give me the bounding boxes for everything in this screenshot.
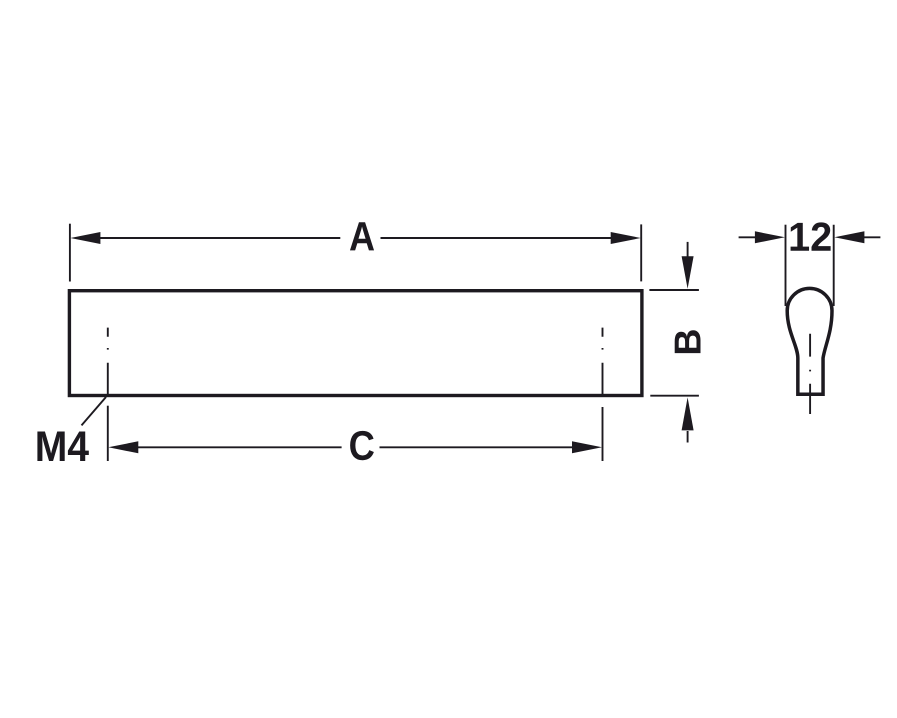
- dimension 12 extension line left: [785, 225, 787, 306]
- dimension C label: [350, 431, 374, 460]
- dimension B label: [675, 330, 701, 353]
- dimension 12 label: [791, 222, 831, 250]
- dimension A extension line right: [640, 224, 642, 281]
- thread label M4: [37, 431, 88, 461]
- dimension 12 extension line right: [833, 225, 835, 306]
- hole centerline right: [602, 328, 604, 397]
- dimension A extension line left: [69, 224, 71, 282]
- dimension B arrow top: [682, 242, 694, 289]
- dimension B tick bottom: [650, 395, 699, 397]
- handle front view outline: [69, 291, 642, 396]
- hole centerline left: [107, 328, 109, 397]
- dimension 12 arrow right: [834, 231, 880, 243]
- dimension B arrow bottom: [682, 397, 694, 442]
- dimension A dimension line with arrowheads: [70, 232, 640, 244]
- dimension 12 arrow left: [739, 231, 785, 243]
- dimension C dimension line with arrowheads: [108, 441, 602, 453]
- leader line M4: [82, 397, 107, 425]
- dimension A label: [350, 222, 374, 250]
- dimension B tick top: [649, 289, 699, 291]
- side profile centerline: [809, 334, 811, 414]
- handle side profile: [787, 288, 832, 394]
- dimension C extension line left: [107, 406, 109, 461]
- dimension C extension line right: [602, 407, 604, 461]
